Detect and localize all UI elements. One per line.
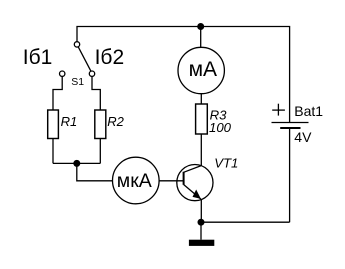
resistor R1 bbox=[48, 110, 59, 139]
wire mA to R3 bbox=[200, 94, 202, 104]
ammeter uA body bbox=[113, 157, 160, 204]
wire to ground bbox=[200, 222, 202, 240]
ammeter mA body bbox=[178, 47, 224, 93]
wire R3 to VT1 collector bbox=[200, 134, 202, 166]
wire right contact to R2 bbox=[92, 76, 100, 110]
svg-text:100: 100 bbox=[209, 120, 232, 135]
node emitter junction bbox=[198, 219, 205, 226]
svg-text:мА: мА bbox=[189, 58, 217, 81]
battery Bat1 plus lead bbox=[272, 122, 309, 124]
switch S1 left contact bbox=[60, 71, 65, 76]
wire battery bottom bbox=[289, 129, 291, 222]
battery plus sign bbox=[272, 104, 285, 116]
wire R2 bottom bbox=[99, 139, 101, 164]
wire left contact to R1 bbox=[53, 76, 62, 110]
wire mA drop bbox=[200, 27, 202, 48]
node junction top (to mA branch) bbox=[197, 23, 204, 30]
wire bottom join bbox=[53, 162, 100, 164]
switch S1 blade bbox=[78, 47, 91, 72]
svg-text:мкА: мкА bbox=[117, 170, 152, 192]
resistor R3 bbox=[196, 104, 208, 134]
svg-text:VT1: VT1 bbox=[214, 156, 238, 171]
svg-text:R2: R2 bbox=[107, 114, 124, 129]
wire emitter down bbox=[200, 199, 202, 222]
wire top rail bbox=[77, 27, 290, 123]
svg-text:Іб1: Іб1 bbox=[23, 46, 53, 69]
wire junction to uA meter bbox=[77, 163, 113, 180]
wire uA to base bbox=[159, 180, 183, 182]
resistor R2 bbox=[95, 110, 106, 139]
svg-text:4V: 4V bbox=[294, 129, 312, 145]
node resistor junction bbox=[73, 160, 80, 167]
svg-text:R1: R1 bbox=[61, 114, 78, 129]
switch S1 right contact bbox=[89, 71, 94, 76]
wire R1 bottom bbox=[52, 139, 54, 164]
battery Bat1 minus plate bbox=[280, 127, 300, 129]
ground bbox=[189, 240, 214, 246]
wire bottom rail bbox=[201, 221, 290, 223]
svg-text:Іб2: Іб2 bbox=[95, 46, 125, 69]
transistor VT1 bbox=[177, 165, 213, 201]
svg-text:S1: S1 bbox=[71, 76, 84, 88]
switch S1 pole contact bbox=[74, 42, 79, 47]
svg-text:Bat1: Bat1 bbox=[294, 103, 323, 119]
